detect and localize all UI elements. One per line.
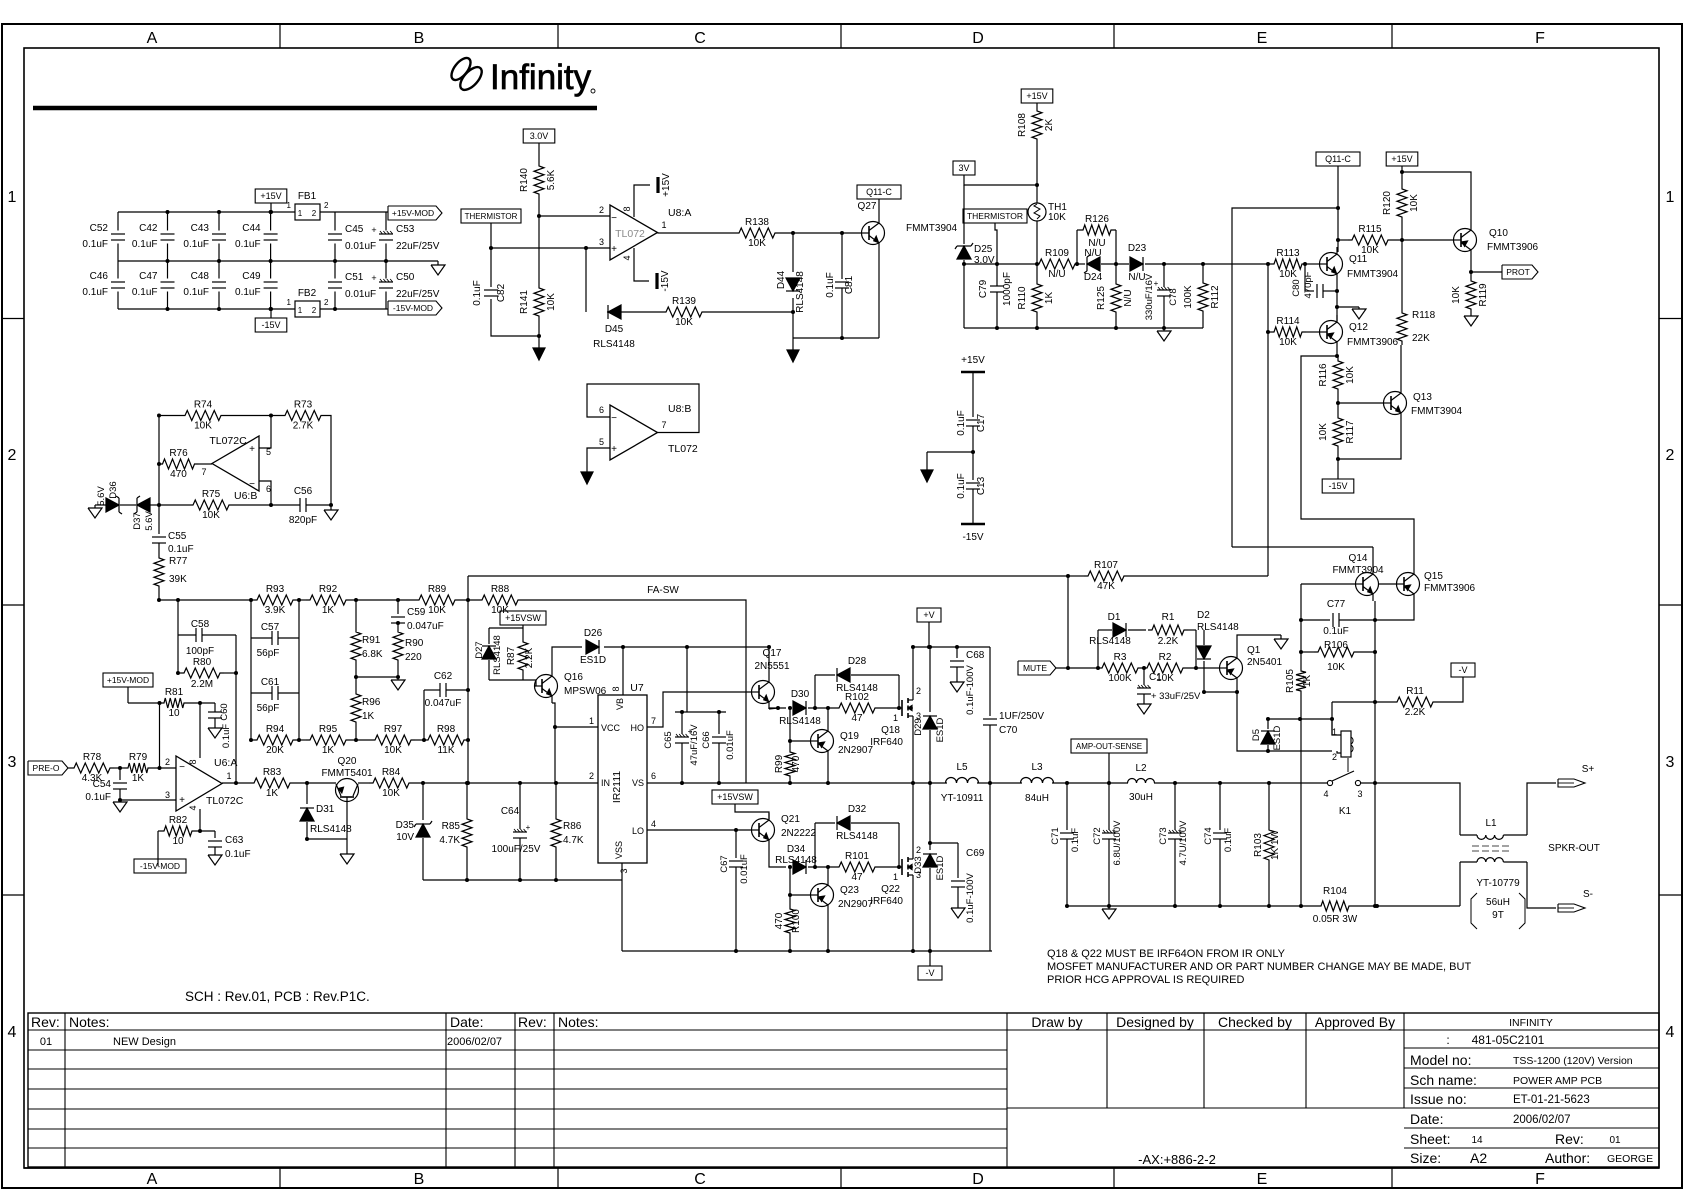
svg-text:R125: R125	[1096, 286, 1107, 310]
power flag -V relay	[1451, 663, 1475, 677]
svg-text:IRF640: IRF640	[870, 737, 903, 748]
svg-text:2: 2	[312, 306, 317, 315]
svg-text:L2: L2	[1135, 763, 1147, 774]
wire VSS stub	[621, 863, 623, 880]
net flag PROT	[1502, 265, 1538, 279]
svg-text:R85: R85	[442, 821, 461, 832]
svg-text:YT-10911: YT-10911	[941, 793, 984, 804]
svg-text:47K: 47K	[1097, 581, 1115, 592]
svg-text:+15V: +15V	[1026, 91, 1047, 101]
svg-text:0.1uF: 0.1uF	[168, 544, 194, 555]
svg-text:Q21: Q21	[781, 814, 800, 825]
svg-text:4: 4	[651, 819, 656, 829]
resistor R84	[369, 767, 413, 799]
row numbers 1-4	[8, 189, 1675, 1041]
svg-text:R99: R99	[774, 754, 785, 773]
power flag -V low	[918, 966, 942, 980]
svg-text:R141: R141	[519, 290, 530, 314]
transistor Q1	[1220, 645, 1283, 685]
svg-text:R115: R115	[1358, 224, 1382, 235]
capacitor C67	[719, 830, 750, 951]
svg-text:E: E	[1257, 30, 1268, 47]
junction dots relay driver	[1066, 574, 1302, 753]
resistor R77	[154, 554, 188, 590]
svg-text:Q22: Q22	[881, 884, 900, 895]
svg-text:3: 3	[1666, 754, 1675, 771]
svg-text:3: 3	[165, 790, 170, 800]
svg-text:2.7K: 2.7K	[293, 421, 314, 432]
svg-text:Q23: Q23	[840, 885, 859, 896]
svg-text:R96: R96	[362, 697, 381, 708]
diode D31	[300, 783, 352, 839]
svg-text:0.1uF: 0.1uF	[235, 287, 261, 298]
svg-text:C: C	[694, 30, 706, 47]
resistor R93	[253, 584, 297, 616]
svg-text:Q19: Q19	[840, 731, 859, 742]
svg-text:10K: 10K	[428, 605, 446, 616]
svg-text:D37: D37	[132, 512, 143, 529]
wire C82 bottom	[491, 299, 539, 336]
wire U8B +input	[587, 448, 610, 470]
svg-text:ES1D: ES1D	[935, 855, 946, 880]
svg-text:2006/02/07: 2006/02/07	[1513, 1114, 1571, 1126]
transistor Q21	[752, 813, 817, 847]
svg-text:C56: C56	[294, 486, 313, 497]
svg-text:+15V: +15V	[1391, 154, 1412, 164]
resistor R141	[519, 284, 557, 320]
diode D30	[779, 689, 821, 727]
svg-text:22K: 22K	[1412, 333, 1430, 344]
svg-text:0.01uF: 0.01uF	[725, 730, 736, 760]
ground Q27 bus	[787, 338, 799, 362]
wire +15VSW stem	[522, 625, 524, 638]
svg-text:RLS4148: RLS4148	[795, 271, 806, 313]
resistor R94	[253, 724, 297, 756]
wire R75 to C56	[233, 504, 300, 506]
resistor R3	[1098, 652, 1142, 684]
svg-text:2.2K: 2.2K	[524, 647, 535, 668]
wire R78-R79	[114, 767, 124, 769]
svg-text:3: 3	[619, 868, 629, 873]
transistor Q10	[1454, 223, 1539, 257]
wire PRE-O to R78	[68, 767, 70, 769]
svg-text:Rev:: Rev:	[518, 1014, 547, 1030]
resistor R113	[1270, 248, 1306, 280]
capacitor C48	[183, 271, 226, 298]
wire Q1 emitter	[1237, 635, 1281, 651]
wire rail 951	[622, 950, 992, 952]
wire flag stub	[157, 859, 159, 866]
svg-text:VB: VB	[615, 698, 625, 710]
wire bus 740 a	[251, 739, 253, 741]
resistor R114	[1270, 316, 1306, 348]
svg-text:10K: 10K	[748, 238, 766, 249]
svg-text:C73: C73	[1158, 827, 1169, 844]
svg-text:−: −	[179, 762, 185, 773]
wire Q18 drain	[912, 647, 914, 690]
wire +15VSW2 stem	[735, 804, 769, 819]
wire VS bus 2	[977, 782, 1022, 784]
svg-text:10K: 10K	[194, 421, 212, 432]
MOSFET note	[1047, 948, 1471, 986]
wire gnd branch	[927, 451, 973, 453]
svg-text:D26: D26	[584, 628, 603, 639]
wire Q11 gnd stub	[1337, 306, 1359, 308]
svg-text:Q1: Q1	[1247, 645, 1261, 656]
svg-text:A: A	[147, 1171, 158, 1188]
resistor R105	[1296, 667, 1306, 695]
wire Q19 base	[790, 740, 810, 742]
svg-text:5.6V: 5.6V	[144, 511, 155, 531]
wire C69 stub	[930, 842, 958, 844]
svg-text:4.7U/100V: 4.7U/100V	[1178, 820, 1189, 866]
resistor R100	[785, 905, 795, 937]
svg-text:-15V: -15V	[261, 320, 280, 330]
wire 3.0V stem	[538, 143, 540, 162]
svg-text:1K: 1K	[322, 745, 335, 756]
svg-text:Date:: Date:	[1410, 1111, 1443, 1127]
svg-text:R114: R114	[1276, 316, 1300, 327]
svg-text:C79: C79	[978, 279, 989, 298]
wire -V stem	[929, 951, 931, 966]
net label Q11-C (top)	[1316, 152, 1360, 166]
wire D26 right rail	[604, 646, 769, 648]
svg-text:Q16: Q16	[564, 672, 583, 683]
svg-text:MOSFET MANUFACTURER AND OR PAR: MOSFET MANUFACTURER AND OR PART NUMBER C…	[1047, 961, 1471, 973]
svg-text:C81: C81	[844, 275, 855, 294]
svg-text:0.1uF-100V: 0.1uF-100V	[965, 873, 976, 923]
wire R120 to R118	[1401, 221, 1403, 309]
svg-text:2: 2	[324, 201, 329, 210]
wire Q17 emitter stub	[769, 708, 778, 709]
svg-text:1: 1	[298, 209, 303, 218]
resistor R90	[393, 628, 403, 664]
junction dots low side	[734, 828, 932, 953]
svg-text:VCC: VCC	[601, 723, 621, 733]
wire MUTE to R3	[1056, 667, 1098, 669]
resistor R138	[735, 217, 779, 249]
terminal S+	[1558, 764, 1594, 787]
resistor R2	[1143, 652, 1187, 684]
capacitor C68	[950, 647, 985, 715]
svg-text:-15V: -15V	[1328, 481, 1347, 491]
svg-text:D31: D31	[316, 804, 335, 815]
svg-text:Notes:: Notes:	[69, 1014, 109, 1030]
svg-text:R83: R83	[263, 767, 282, 778]
op-amp U6:A	[165, 756, 244, 811]
svg-text:2.2M: 2.2M	[191, 679, 213, 690]
svg-text:0.05R 3W: 0.05R 3W	[1313, 914, 1358, 925]
diode D34	[775, 844, 817, 874]
resistor R80	[180, 635, 236, 783]
diode D2	[1197, 610, 1239, 659]
wire D25 to rail	[963, 260, 965, 328]
svg-text:+15V-MOD: +15V-MOD	[392, 208, 434, 218]
wire R87 bottom	[522, 674, 524, 680]
power flag +15VSW	[500, 611, 546, 625]
svg-text:R90: R90	[405, 638, 424, 649]
svg-text:3.9K: 3.9K	[265, 605, 286, 616]
resistor R106	[1301, 640, 1375, 673]
wire C1 branch	[1143, 668, 1145, 685]
svg-text:C69: C69	[966, 848, 985, 859]
svg-text:−: −	[611, 213, 617, 224]
wire D36-D37	[120, 504, 136, 506]
power flag +15V thermal	[1021, 89, 1053, 103]
svg-text:R86: R86	[563, 821, 582, 832]
svg-text:01: 01	[40, 1036, 52, 1048]
wire C17 to C13	[972, 426, 974, 480]
svg-text:9T: 9T	[1492, 910, 1504, 921]
svg-text:C51: C51	[345, 272, 364, 283]
mosfet Q18	[870, 686, 921, 748]
svg-text:Q20: Q20	[338, 756, 357, 767]
wire C53 leads	[385, 212, 387, 231]
wire +V rail	[913, 646, 990, 648]
wire +15V stem	[270, 203, 272, 212]
svg-text:+: +	[371, 273, 376, 283]
capacitor C82	[472, 280, 507, 306]
capacitor C47	[132, 271, 175, 298]
svg-text:RLS4148: RLS4148	[836, 831, 878, 842]
capacitor C78	[1144, 264, 1179, 328]
svg-text:SCH : Rev.01, PCB : Rev.P1C.: SCH : Rev.01, PCB : Rev.P1C.	[185, 989, 370, 1004]
wire Q13 base	[1338, 402, 1383, 404]
svg-text:ES1D: ES1D	[935, 717, 946, 742]
svg-text:C52: C52	[90, 223, 109, 234]
wire pin8 column	[199, 703, 201, 758]
wire feedback vertical	[467, 576, 469, 783]
wire pin4 column	[199, 809, 201, 831]
wire R107 right	[1128, 575, 1268, 577]
wire Q10 emitter	[1470, 257, 1472, 277]
resistor R11	[1393, 686, 1437, 718]
svg-text:D44: D44	[776, 270, 787, 289]
wire bottom rail left	[1067, 905, 1317, 907]
svg-text:Rev:: Rev:	[1555, 1131, 1584, 1147]
wire 3V stem	[964, 175, 1037, 185]
svg-text:10K: 10K	[384, 745, 402, 756]
wire Q1 collector	[1237, 685, 1332, 751]
diode D32 loop	[815, 804, 899, 867]
svg-text:FMMT3904: FMMT3904	[1411, 406, 1463, 417]
wire main bus 600 c	[350, 599, 415, 601]
svg-text:R77: R77	[169, 556, 188, 567]
svg-text:D: D	[972, 30, 984, 47]
wire C65 rail	[675, 711, 726, 713]
svg-text:1: 1	[589, 716, 594, 726]
capacitor C66	[701, 712, 736, 783]
svg-text:C43: C43	[191, 223, 210, 234]
wire R85 leads	[466, 783, 468, 815]
svg-text:Q11-C: Q11-C	[866, 187, 892, 197]
wire Q19 collector	[827, 758, 829, 783]
svg-text:100uF/25V: 100uF/25V	[492, 844, 541, 855]
wire to PROT	[1471, 271, 1502, 273]
transistor Q19	[811, 724, 874, 758]
svg-text:1: 1	[287, 298, 292, 307]
svg-text:10K: 10K	[675, 317, 693, 328]
capacitor C62	[424, 671, 468, 740]
wire R76 to opamp	[199, 463, 213, 465]
svg-text:U8:A: U8:A	[668, 207, 691, 219]
wire feedback bus 576	[468, 575, 1068, 577]
wire R90 bottom	[397, 664, 399, 677]
capacitor C49	[235, 271, 278, 298]
row band dividers	[2, 319, 1682, 896]
svg-text:6: 6	[266, 484, 271, 494]
resistor R119	[1451, 277, 1489, 313]
svg-text:Sch name:: Sch name:	[1410, 1072, 1477, 1088]
svg-text:F: F	[1535, 30, 1545, 47]
resistor R112	[1183, 279, 1221, 315]
svg-text:470: 470	[774, 912, 785, 929]
svg-text:4: 4	[1323, 789, 1328, 799]
svg-text:R2: R2	[1159, 652, 1172, 663]
svg-text:4: 4	[8, 1024, 17, 1041]
wire to S-	[1527, 862, 1556, 908]
wire Q13 collector	[1400, 345, 1402, 386]
svg-text:10: 10	[168, 708, 180, 719]
svg-text:7: 7	[661, 420, 666, 430]
svg-text:N/U: N/U	[1088, 238, 1105, 249]
wire L1 vertical	[1459, 862, 1461, 906]
wire C43 leads	[218, 212, 220, 231]
svg-text:+15VSW: +15VSW	[717, 792, 753, 802]
wire R90 top	[397, 623, 399, 628]
svg-text:R113: R113	[1276, 248, 1300, 259]
svg-text:C1: C1	[1149, 672, 1162, 683]
diode D23	[1128, 243, 1147, 283]
svg-text:820pF: 820pF	[289, 515, 317, 526]
wire R109 to D24	[1079, 263, 1085, 265]
svg-text:1000pF: 1000pF	[1002, 272, 1013, 306]
svg-text:100pF: 100pF	[186, 646, 214, 657]
svg-text:7: 7	[651, 716, 656, 726]
svg-text:FMMT3904: FMMT3904	[1332, 565, 1384, 576]
svg-text:R100: R100	[791, 909, 802, 933]
wire C50 leads	[385, 292, 387, 310]
ground C69	[951, 906, 965, 918]
svg-text:0.01uF: 0.01uF	[345, 241, 376, 252]
wire bracket bottom	[489, 680, 536, 686]
transistor Q11	[1320, 247, 1399, 281]
svg-text:R78: R78	[83, 752, 102, 763]
svg-text:TL072C: TL072C	[206, 795, 244, 807]
zener D35	[396, 820, 432, 843]
resistor R79	[124, 752, 152, 784]
capacitor C77	[1301, 599, 1375, 637]
svg-text:R79: R79	[129, 752, 148, 763]
zener D25	[955, 243, 995, 266]
svg-text:VSS: VSS	[614, 841, 624, 859]
wire VB stem	[622, 647, 624, 695]
capacitor C50	[371, 272, 439, 300]
wire Q11-C stem	[1337, 166, 1339, 252]
wire pin8	[634, 185, 650, 217]
L1 value note	[1471, 893, 1525, 929]
wire -15V stem q13	[1337, 459, 1339, 479]
transistor Q23	[811, 878, 874, 912]
svg-text:C70: C70	[999, 725, 1018, 736]
signature columns	[1007, 1013, 1404, 1108]
svg-text:R82: R82	[169, 815, 188, 826]
svg-text:C71: C71	[1050, 827, 1061, 844]
wire C57 bracket right	[298, 600, 300, 740]
wire pin2 column	[159, 703, 161, 768]
svg-text:+: +	[611, 444, 617, 455]
wire bus 740 b	[297, 739, 306, 741]
ground Q1	[1274, 635, 1288, 649]
svg-text:-AX:+886-2-2: -AX:+886-2-2	[1138, 1152, 1216, 1167]
svg-text:PRE-O: PRE-O	[33, 763, 60, 773]
resistor R117	[1318, 414, 1356, 450]
resistor R87	[518, 638, 528, 674]
ground C60	[208, 726, 222, 738]
wire Q23 collector	[827, 912, 829, 951]
resistor R126	[1077, 214, 1116, 264]
svg-text:Q14: Q14	[1349, 553, 1368, 564]
power flag 3.0V	[523, 129, 555, 143]
ferrite bead FB2	[287, 288, 329, 317]
junction dots modulator bus	[157, 598, 470, 785]
svg-text:Size:: Size:	[1410, 1150, 1441, 1166]
svg-text:NEW Design: NEW Design	[113, 1036, 176, 1048]
ground decoupling	[921, 452, 933, 482]
svg-text:R92: R92	[319, 584, 338, 595]
svg-text:10: 10	[172, 836, 184, 847]
wire R86 leads	[555, 783, 557, 815]
svg-text:1K: 1K	[362, 711, 375, 722]
power +15V decoupling	[961, 355, 985, 372]
wire C52 leads	[117, 212, 119, 231]
svg-text:1: 1	[8, 189, 17, 206]
revision table headers	[31, 1014, 598, 1030]
resistor R98	[424, 724, 468, 756]
wire R102 to gate	[879, 707, 902, 709]
thermistor TH1	[1028, 202, 1067, 223]
capacitor C61	[251, 677, 299, 714]
svg-text:R89: R89	[428, 584, 447, 595]
wire R3-R2	[1142, 667, 1143, 669]
wire HO to Q17 base	[647, 692, 751, 727]
wire emitter bus Q27	[793, 337, 879, 339]
wire R81 right	[188, 702, 215, 704]
svg-text:0.1uF: 0.1uF	[82, 239, 108, 250]
svg-text:0.1uF: 0.1uF	[82, 287, 108, 298]
power +15V U8:A	[658, 173, 672, 197]
wire R86 body col	[555, 782, 556, 784]
svg-text:D: D	[972, 1171, 984, 1188]
wire R110 leads	[1036, 264, 1038, 280]
net label +15V-MOD	[103, 673, 153, 687]
svg-text:2N2907: 2N2907	[838, 745, 873, 756]
wire U6A output	[222, 782, 250, 784]
wire pin6	[259, 481, 271, 505]
wire R2 to Q1	[1187, 667, 1219, 669]
svg-text:-15V: -15V	[962, 532, 983, 543]
ground C54	[113, 800, 127, 812]
svg-text:Q18 & Q22 MUST BE IRF64ON FROM: Q18 & Q22 MUST BE IRF64ON FROM IR ONLY	[1047, 948, 1286, 960]
svg-text:R110: R110	[1017, 286, 1028, 310]
capacitor C64	[492, 783, 541, 880]
svg-text:R105: R105	[1285, 669, 1296, 693]
svg-text:10K: 10K	[1409, 194, 1420, 212]
wire top bus right	[320, 211, 388, 213]
svg-text:INFINITY: INFINITY	[1509, 1017, 1553, 1029]
wire D5 top	[1268, 718, 1332, 720]
svg-text:D30: D30	[791, 689, 810, 700]
